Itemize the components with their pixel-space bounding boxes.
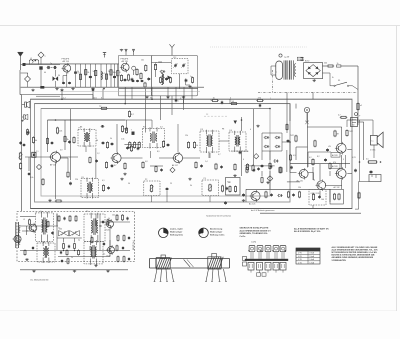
transformer core [284, 60, 294, 79]
am bottom wire [20, 269, 128, 271]
svg-text:6: 6 [120, 72, 121, 74]
resistor R14 [136, 68, 138, 76]
wire left main vertical [21, 95, 23, 211]
svg-text:7: 7 [202, 234, 204, 236]
fm antenna input [170, 44, 175, 55]
diamond D1 [38, 52, 47, 65]
diamond D7 [267, 176, 273, 182]
pinout bottom row [248, 262, 286, 272]
wire v246 [245, 189, 247, 202]
resistor R18 [154, 63, 156, 71]
wire v219 [219, 140, 229, 142]
svg-text:8,2: 8,2 [317, 156, 320, 158]
ground b1 [31, 89, 34, 92]
rod coil 2 [19, 237, 20, 245]
svg-text:0,9: 0,9 [60, 150, 63, 152]
labels row1 [80, 127, 251, 143]
junction dots right [359, 161, 382, 163]
cap C ground [40, 86, 44, 89]
svg-text:Cu/Ox: Cu/Ox [240, 236, 247, 238]
driver box [226, 178, 241, 196]
capacitor C35 [354, 169, 357, 173]
wire 358 196 [357, 118, 359, 126]
svg-text:OC45: OC45 [105, 230, 109, 232]
am extra parts1 [24, 219, 80, 256]
label T10 [249, 203, 255, 206]
resistor R44 [221, 185, 223, 193]
resistor R20 [169, 77, 171, 84]
svg-text:ALLE SPANNUNGEN BEI UKW-BETRIE: ALLE SPANNUNGEN BEI UKW-BETRIEB, TOL. 20… [332, 249, 378, 252]
wire mid h166 [150, 165, 163, 167]
pinout label [251, 242, 257, 244]
wire pots down [152, 191, 211, 202]
parts right mid [289, 154, 292, 170]
capacitor C33 [261, 164, 264, 168]
capacitor C34 [324, 158, 327, 162]
dial pulley left [156, 258, 171, 269]
resistor R13 [127, 74, 129, 82]
resistor R53 [366, 159, 378, 164]
svg-text:ALLE SPANNUNGEN GEGEN 0 V: ALLE SPANNUNGEN GEGEN 0 V [240, 229, 272, 232]
svg-text:F8: F8 [222, 129, 224, 131]
svg-text:5: 5 [178, 100, 180, 102]
wire speaker1 [347, 120, 373, 135]
wire h158 left [25, 156, 51, 158]
labels amp [309, 146, 344, 161]
dashed box amp1 [309, 189, 326, 205]
gang cap 1 [59, 231, 69, 237]
wire v262 [261, 151, 263, 160]
resistor R51 [269, 162, 271, 170]
resistor R58 [287, 191, 289, 199]
svg-text:0,2: 0,2 [309, 157, 312, 159]
wire t5 f3 [183, 152, 209, 158]
labels on bus [63, 97, 103, 99]
svg-text:Ls: Ls [372, 141, 374, 143]
svg-text:7: 7 [131, 130, 132, 132]
svg-text:1,4: 1,4 [205, 161, 208, 163]
svg-text:4k: 4k [35, 140, 37, 142]
wire v270 [269, 151, 271, 160]
wire v145 [145, 89, 147, 133]
wire t4 t5 [121, 157, 173, 159]
dash label line [204, 114, 228, 116]
text block C [332, 246, 379, 262]
wire v262b [261, 171, 263, 176]
svg-text:2: 2 [276, 72, 278, 73]
ground m2 [123, 173, 126, 176]
capacitor C23 [167, 143, 170, 147]
wire t6 t7 [308, 173, 315, 181]
if can F1 [78, 128, 96, 147]
capacitor C55 [220, 165, 222, 169]
ground m4 [120, 178, 123, 181]
top row wire 3 [89, 64, 91, 87]
svg-text:AF 116: AF 116 [50, 163, 56, 166]
svg-text:0,1: 0,1 [102, 180, 105, 182]
svg-text:6: 6 [243, 159, 244, 161]
coil L3 [158, 62, 164, 85]
dial tabs [161, 253, 216, 258]
wire det out [282, 142, 290, 160]
transistor T1 [62, 63, 71, 74]
top row part 3 [89, 76, 92, 77]
cap elco C36 [351, 113, 358, 127]
resistor R46 [124, 162, 126, 170]
resistor R17 [144, 82, 146, 88]
svg-text:L1: L1 [30, 58, 32, 60]
text block A [240, 226, 272, 238]
if can F3 [200, 129, 219, 153]
svg-text:4: 4 [250, 129, 251, 131]
wire h96 small [36, 95, 60, 97]
t1 emitter loop [63, 73, 67, 87]
caps row under T2 [132, 80, 144, 83]
volume pot P1 [18, 152, 22, 160]
trimmer bowtie [53, 70, 59, 87]
wire v330b [329, 189, 331, 202]
svg-text:VORBEHALTEN: VORBEHALTEN [332, 259, 347, 262]
am part extra2 [51, 231, 53, 235]
top rail [24, 63, 119, 65]
bus dark overdraw [31, 208, 353, 210]
top row part 8 [113, 76, 116, 77]
psu labels [284, 56, 334, 79]
dash-dot boundary h [258, 91, 357, 93]
svg-text:2k: 2k [71, 257, 73, 259]
svg-text:30: 30 [58, 75, 60, 77]
capacitor C30 [111, 164, 114, 168]
power module dotted top [210, 46, 307, 48]
speaker LS [371, 132, 384, 148]
am lower trafo [37, 242, 55, 263]
dial legs right [205, 269, 227, 281]
capacitor C20 [101, 125, 105, 128]
am wire 1 [20, 225, 56, 227]
box labels [141, 60, 192, 80]
resistor R64 [121, 127, 128, 141]
resistor R37 [187, 141, 189, 149]
resistor R69 [279, 166, 281, 173]
resistor R57 [265, 191, 267, 199]
resistor R39 [291, 135, 298, 143]
legend circle 1 [159, 228, 169, 238]
top labels [27, 63, 121, 77]
am ift 3 [84, 240, 103, 265]
capacitor C14 [147, 77, 150, 81]
ground det [256, 125, 259, 128]
tone dashed box [202, 178, 219, 196]
svg-text:AF 115: AF 115 [122, 60, 129, 63]
am ift 1 [35, 212, 53, 243]
wire bus 189 [246, 188, 330, 190]
label box T9 [331, 164, 340, 189]
capacitor C21 [102, 141, 105, 145]
transistor T11 [13, 234, 22, 244]
svg-text:39: 39 [337, 133, 340, 135]
svg-text:0,1: 0,1 [103, 254, 105, 256]
label T4 [111, 164, 117, 167]
svg-text:10n: 10n [141, 60, 144, 62]
svg-text:Si: Si [332, 77, 334, 79]
am label extra [26, 231, 105, 256]
stub v183b [183, 99, 185, 103]
diamond D2 [21, 73, 31, 87]
am wire 3 [56, 214, 58, 251]
am wire 2 [20, 228, 130, 251]
transistor T2 [120, 62, 129, 73]
pot in box P2 [149, 184, 153, 192]
rail shadow [60, 90, 200, 92]
resistor R32 [129, 141, 131, 149]
osc gnd [186, 79, 192, 88]
marks above box2 [132, 49, 135, 55]
svg-text:220: 220 [75, 179, 78, 181]
resistor R27 [230, 101, 238, 105]
capacitor C16 [185, 79, 188, 83]
resistor R41 [42, 178, 44, 186]
am wire h222 [100, 221, 130, 223]
svg-text:100: 100 [321, 199, 324, 201]
pcb outline box C [41, 109, 270, 197]
wire t6 in [290, 160, 297, 173]
svg-text:1k: 1k [67, 139, 69, 141]
svg-text:0,9: 0,9 [293, 155, 296, 157]
svg-text:C2: C2 [58, 228, 60, 230]
ground t1 [55, 87, 58, 90]
pinout top row [249, 246, 286, 259]
am caption [30, 279, 49, 282]
capacitor C52 [68, 140, 71, 144]
pinout dots [248, 250, 285, 251]
resistor R45 [105, 161, 107, 169]
svg-text:P2: P2 [145, 179, 147, 181]
resistor R68 [252, 164, 254, 171]
svg-text:L4: L4 [103, 73, 105, 75]
ground t3 [91, 87, 94, 90]
top row wire 6 [106, 64, 108, 87]
bottom rail [21, 86, 204, 88]
svg-text:0,5: 0,5 [366, 159, 369, 161]
svg-text:F6: F6 [80, 127, 82, 129]
svg-text:500: 500 [44, 257, 47, 259]
resistor R54 [329, 162, 331, 169]
ground d1 [266, 181, 269, 184]
varicap 1 [173, 64, 177, 68]
svg-text:ZF: ZF [206, 114, 209, 116]
top row part 9 [117, 71, 119, 76]
svg-text:15k: 15k [298, 187, 301, 189]
capacitor C18 [175, 99, 180, 103]
resistor R66 [155, 165, 157, 172]
top row part 2 [85, 70, 90, 75]
earphone jack [359, 175, 381, 182]
legend text 2 [210, 228, 225, 237]
svg-text:L5: L5 [23, 219, 25, 221]
svg-text:10k: 10k [112, 215, 115, 217]
spec table [296, 248, 320, 264]
resistor R30 [56, 127, 62, 135]
svg-text:Skalenzeiger: Skalenzeiger [170, 232, 182, 234]
pcb outline box B [35, 104, 291, 202]
capacitor C15 [165, 77, 168, 81]
svg-text:bei 6 V Batterie gemessen: bei 6 V Batterie gemessen [251, 209, 274, 212]
svg-text:4p: 4p [78, 240, 80, 242]
wire h144 [124, 143, 140, 145]
resistor R42 [102, 184, 104, 192]
dash-dot boundary v [272, 70, 274, 92]
transistor T5 [172, 152, 183, 164]
arrow mark 235 [234, 121, 238, 125]
bus labels2 [150, 97, 271, 99]
svg-text:8,9: 8,9 [157, 151, 160, 153]
svg-text:AC 125: AC 125 [249, 203, 255, 206]
resistor R33 [134, 141, 136, 149]
svg-text:AF 117: AF 117 [172, 164, 178, 167]
svg-text:Osz. Mittelwelle 460 kHz: Osz. Mittelwelle 460 kHz [30, 279, 49, 282]
legend text 1 [170, 228, 184, 237]
am wire 4 [64, 226, 103, 242]
svg-text:u1: u1 [360, 105, 362, 107]
parts box amp1 [311, 192, 321, 201]
svg-text:-6V: -6V [328, 146, 332, 148]
ntc extra [346, 129, 354, 136]
resistor R48 [195, 161, 197, 169]
wire v253 drop [253, 151, 255, 165]
part 133 [131, 130, 135, 135]
svg-text:Cu/Ni: Cu/Ni [251, 242, 257, 244]
svg-text:+: + [359, 115, 361, 118]
resistor R49 [234, 163, 236, 171]
top row part 5 [101, 72, 105, 80]
pilot lamp [304, 107, 309, 122]
resistor R67 [215, 163, 217, 170]
pot in box P3 [208, 184, 212, 192]
wire y94.6 [22, 95, 93, 100]
top row wire 7 [110, 64, 112, 87]
caption amp [251, 209, 274, 212]
wire v241 [241, 117, 243, 131]
if can F4 [229, 130, 246, 152]
junction dots bus [55, 88, 291, 143]
svg-text:3k: 3k [190, 185, 192, 187]
transistor T11b [28, 223, 37, 233]
parts h144 [126, 145, 139, 152]
resistor TP [99, 106, 108, 109]
labels mid [145, 159, 244, 163]
dial divider [184, 259, 194, 267]
am part extra3 [91, 237, 93, 244]
resistor R65 [89, 156, 91, 163]
top row wire 9 [117, 64, 119, 87]
svg-text:Stellung rechts: Stellung rechts [210, 233, 225, 236]
wire v290 [289, 104, 291, 121]
svg-text:500: 500 [324, 63, 327, 65]
jack symbol 1 [22, 101, 30, 108]
legend circle 2 [199, 228, 209, 238]
diode D9 [273, 160, 279, 163]
resistor R31 [121, 125, 127, 133]
svg-text:AF 114: AF 114 [63, 60, 70, 63]
wire v313b [312, 205, 314, 209]
dial bar [150, 259, 230, 269]
svg-text:ALLE WIDERSTAENDE 1/8 WATT 5%: ALLE WIDERSTAENDE 1/8 WATT 5% [294, 227, 329, 230]
svg-text:4k7: 4k7 [154, 65, 157, 67]
mid wire 124 [127, 120, 153, 131]
svg-text:30: 30 [96, 140, 98, 142]
wire v240 drop [241, 151, 243, 176]
mark plus [21, 120, 24, 122]
am gnd marks [32, 270, 109, 273]
wire v125b [124, 89, 126, 104]
top row wire 2 [85, 64, 87, 87]
jack symbol 2 [22, 114, 28, 119]
svg-text:0,7: 0,7 [218, 154, 221, 156]
parts box amp2 [333, 193, 340, 200]
ferrite rod [16, 222, 19, 248]
ground b3 [91, 89, 94, 92]
wire v172 [171, 96, 173, 115]
svg-text:Abstimmung: Abstimmung [210, 228, 223, 231]
svg-text:GEDRUCKTE SCHALTPLATTE: GEDRUCKTE SCHALTPLATTE [240, 226, 269, 229]
top row part 6 [105, 74, 107, 79]
transistor T8 [335, 142, 346, 155]
ratio detector [262, 133, 282, 151]
label T6 [297, 179, 303, 182]
svg-text:470: 470 [333, 162, 336, 164]
am wire v100 [99, 214, 101, 251]
capacitor C25 [326, 148, 329, 152]
diamond D6 [254, 154, 259, 159]
ground rectifier [313, 79, 316, 82]
resistor R15 [140, 72, 142, 79]
am parts right2 [117, 235, 130, 263]
resistor R73 [358, 192, 360, 199]
elco plus [359, 115, 361, 118]
resistor R71 [261, 177, 263, 184]
svg-text:8,2: 8,2 [131, 114, 135, 116]
wire v55 down [55, 176, 57, 199]
svg-text:12k: 12k [185, 135, 188, 137]
agc wire top B [35, 103, 291, 105]
svg-text:1n: 1n [190, 76, 192, 78]
svg-text:Tonabnehmer 500 mV an Buchse: Tonabnehmer 500 mV an Buchse [206, 215, 231, 218]
ground a1 [242, 199, 245, 202]
resistor R62 [64, 135, 69, 142]
wire rect lower [323, 73, 331, 86]
capacitor C22 [111, 142, 114, 146]
svg-text:AC128: AC128 [332, 154, 338, 157]
diamond D4 [36, 164, 41, 169]
resistor R19 [159, 77, 161, 84]
resistor R50 [246, 163, 248, 171]
svg-text:C12: C12 [173, 57, 176, 59]
svg-text:2k: 2k [87, 72, 89, 74]
transistor T13 [106, 245, 114, 255]
resistor R35 [106, 141, 108, 149]
wire h120 [48, 119, 126, 121]
svg-text:NTC: NTC [350, 131, 354, 133]
resistor R70 [246, 166, 248, 173]
capacitor C27 [107, 186, 110, 190]
varicap 2 [181, 64, 185, 68]
wire rail right [344, 66, 358, 118]
resistor R36 [162, 140, 164, 148]
label T2 [121, 59, 129, 63]
svg-text:BUCHSE A VORSCHALTEN, MESSSEND: BUCHSE A VORSCHALTEN, MESSSENDER 6dB [332, 254, 376, 257]
wire osc2 [155, 71, 157, 78]
am wire 5 [20, 217, 110, 257]
